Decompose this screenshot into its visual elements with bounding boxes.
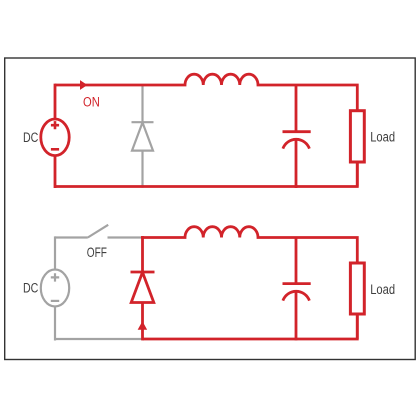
svg-text:DC: DC — [23, 280, 38, 296]
svg-text:Load: Load — [370, 282, 395, 297]
svg-text:ON: ON — [83, 94, 100, 109]
svg-text:Load: Load — [370, 129, 395, 144]
svg-text:OFF: OFF — [87, 244, 107, 260]
svg-text:DC: DC — [23, 130, 38, 146]
